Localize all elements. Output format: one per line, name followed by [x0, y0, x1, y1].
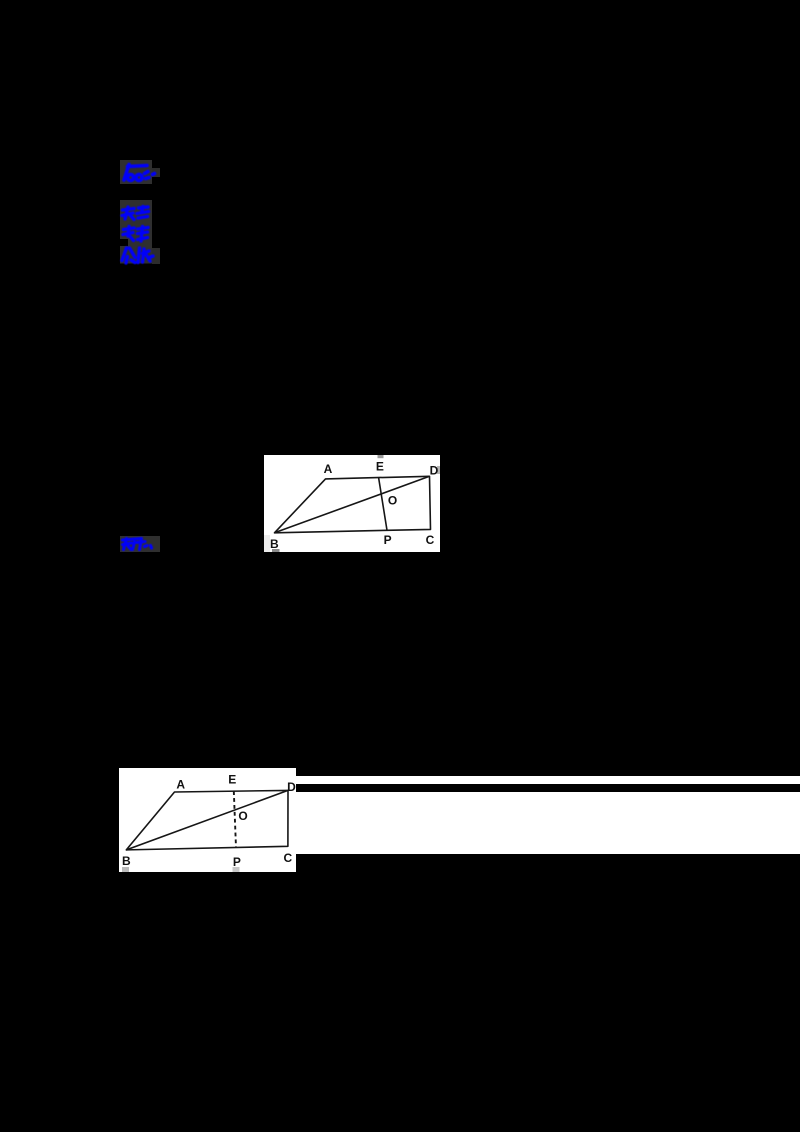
svg-text:D: D [287, 780, 296, 794]
svg-text:O: O [238, 809, 247, 823]
svg-text:E: E [228, 772, 236, 786]
scan smudge below B [122, 867, 129, 872]
svg-text:C: C [283, 851, 292, 865]
figure 2: trapezoid ABCD with diagonal BD and dashed cevian EP [119, 768, 296, 872]
quadrilateral ABDC outline [126, 790, 288, 850]
tag column background box [120, 200, 152, 264]
svg-text:C: C [426, 533, 435, 547]
tag L1 blue glyphs [124, 165, 155, 181]
svg-text:A: A [176, 777, 185, 791]
svg-text:B: B [122, 854, 131, 868]
scan smudge above E [378, 455, 384, 458]
tag L5 background box [120, 536, 160, 552]
figure 1 white background [264, 455, 440, 552]
diagonal BD [126, 790, 288, 850]
tag L5 blue glyphs [123, 539, 152, 550]
blue tag image L1 (解答 label) [118, 158, 164, 188]
figure 2 white background [119, 768, 296, 872]
scan smudge below B [272, 549, 280, 552]
svg-text:B: B [270, 537, 279, 551]
blue tag column L2 L3 L4 (考点/专题/分析 labels) [118, 198, 164, 268]
scan smudge left edge [264, 535, 270, 552]
svg-text:E: E [376, 460, 384, 474]
tag L1 colon box [152, 168, 160, 177]
quadrilateral ABDC outline [275, 476, 431, 533]
svg-text:P: P [233, 855, 241, 869]
svg-text:P: P [384, 533, 392, 547]
svg-text:A: A [324, 462, 333, 476]
black notch in column [120, 239, 128, 246]
tag L3 blue glyphs (专题) [123, 227, 148, 242]
tag L1 background box [120, 160, 152, 184]
tag L2 blue glyphs (考点) [122, 207, 149, 220]
tag L4 colon box [152, 248, 160, 264]
cevian EP (dashed) [234, 791, 236, 847]
tag L4 blue glyphs (分析) [122, 248, 153, 263]
diagonal BD [275, 476, 430, 533]
figure 1: trapezoid ABCD with diagonal BD and solid cevian EP [264, 455, 440, 552]
svg-text:O: O [388, 494, 397, 508]
svg-text:D: D [430, 463, 439, 477]
scan smudge below P [233, 867, 240, 872]
blue tag L5 (解答: label) [118, 533, 164, 555]
thick black bar in band [296, 784, 800, 792]
white equation band (clipped image) [296, 776, 800, 855]
scan smudge right of D [437, 466, 440, 474]
cevian EP (solid) [379, 478, 387, 531]
